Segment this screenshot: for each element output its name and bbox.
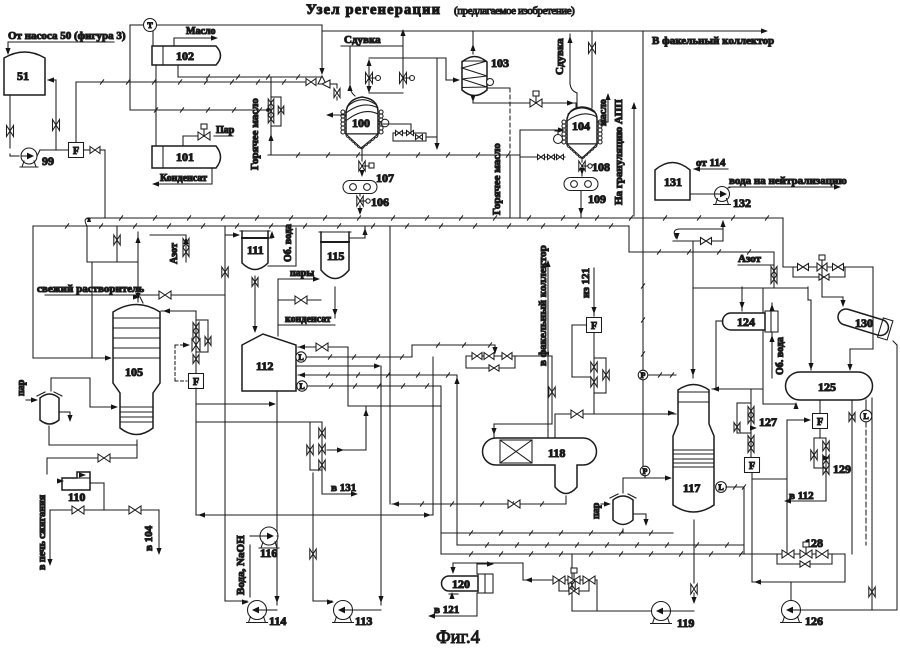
- wire pump132 up: [728, 187, 731, 188]
- label pary: [290, 268, 314, 279]
- wire x433: [432, 357, 434, 514]
- svg-text:Масло: Масло: [186, 26, 216, 37]
- flow meter F1: [69, 143, 84, 158]
- valve 106: [357, 195, 389, 209]
- wire 102 bottom out: [178, 65, 322, 79]
- vessel 112: [242, 334, 296, 391]
- wire F4 down: [751, 473, 753, 583]
- wire x369 riser: [366, 59, 371, 91]
- wire x572 riser: [569, 554, 597, 611]
- wire L1 left end down: [85, 217, 138, 262]
- wire x138 into col top: [135, 232, 140, 302]
- svg-text:113: 113: [355, 614, 372, 628]
- svg-text:112: 112: [256, 359, 273, 373]
- wire P line x643: [641, 252, 644, 466]
- steam pot 105: [37, 392, 62, 424]
- label ot 114: [693, 157, 728, 172]
- header L2 y226: [33, 224, 629, 228]
- pressure gauge P1: [638, 370, 648, 380]
- svg-text:в 131: в 131: [331, 482, 356, 494]
- wire 115 top vent: [349, 228, 368, 238]
- svg-text:Пар: Пар: [216, 125, 235, 136]
- wire x441 long: [440, 386, 442, 554]
- label voda na neytralizaciyu: [729, 175, 847, 190]
- wire F3 drop: [593, 393, 595, 414]
- vessel 115: [319, 232, 351, 279]
- hot oil riser valves: [267, 77, 284, 155]
- wire y58 header: [369, 57, 446, 59]
- svg-text:Т: Т: [147, 21, 153, 30]
- svg-text:L: L: [299, 382, 304, 391]
- valve on y82 line: [306, 79, 316, 86]
- wire 102-101 connector: [155, 65, 157, 146]
- level gauge L1-112: [296, 352, 306, 362]
- svg-text:вода на нейтрализацию: вода на нейтрализацию: [729, 175, 847, 187]
- traced P1 stub: [648, 373, 676, 377]
- wire y554 long: [441, 552, 762, 556]
- svg-text:F: F: [749, 461, 755, 472]
- gauge on 100: [378, 119, 389, 127]
- wire v131 drain: [322, 487, 358, 497]
- wire into reactor top: [330, 84, 340, 100]
- wire L2 corner: [629, 226, 774, 254]
- wire maslo arrow: [174, 35, 218, 46]
- heat exchanger 102: [152, 46, 221, 65]
- svg-text:Горячее масло: Горячее масло: [249, 98, 261, 170]
- wire sduvka 104: [567, 34, 577, 107]
- wire y510: [50, 506, 159, 514]
- wire x117 branch: [114, 226, 120, 262]
- wire y93: [366, 86, 403, 93]
- svg-text:Об. вода: Об. вода: [283, 224, 294, 262]
- label hot oil right: [491, 143, 503, 215]
- wire 111 feed: [225, 232, 240, 237]
- svg-text:L: L: [298, 353, 303, 362]
- vessel 125: [786, 372, 873, 400]
- title: [306, 2, 575, 18]
- wire flare drop x322: [319, 25, 324, 75]
- label Сдувка (100): [344, 34, 381, 46]
- svg-text:F: F: [817, 417, 823, 428]
- label v 131: [331, 482, 356, 494]
- valve azot: [150, 235, 189, 262]
- wire pot right stub: [59, 412, 73, 422]
- control valve steam: [183, 124, 210, 146]
- label maslo 104: [598, 99, 609, 126]
- svg-text:99: 99: [42, 154, 54, 168]
- svg-text:из 121: из 121: [580, 268, 592, 298]
- wire 103 feed: [446, 77, 460, 82]
- svg-text:Азот: Азот: [169, 243, 180, 264]
- wire fresh solvent line: [45, 291, 224, 303]
- wire x130 down: [129, 25, 131, 110]
- svg-text:Конденсат: Конденсат: [160, 173, 207, 184]
- label Конденсат: [160, 173, 207, 184]
- wire 112 y375: [298, 372, 457, 377]
- wire hot oil line y155: [268, 153, 520, 157]
- svg-text:Сдувка: Сдувка: [554, 38, 566, 75]
- wire pot top loop: [51, 378, 118, 410]
- valve 108: [579, 160, 610, 174]
- wire 104 vent valve: [589, 32, 596, 108]
- wire traced line y110: [130, 108, 268, 112]
- heat exchanger 101: [152, 146, 221, 168]
- wire y504: [392, 496, 566, 508]
- svg-text:130: 130: [855, 316, 873, 330]
- wire 104 bottom: [581, 157, 583, 162]
- svg-text:от 114: от 114: [696, 157, 726, 169]
- pump 113: [333, 601, 373, 629]
- svg-text:120: 120: [452, 577, 470, 591]
- wire pot bottom loop: [49, 426, 137, 458]
- wire into 118: [491, 356, 555, 437]
- wire maslo out: [598, 93, 611, 122]
- vessel 118: [483, 438, 597, 494]
- pump 126: [781, 601, 824, 629]
- wire L117 drop: [743, 487, 745, 554]
- wire 112 y366: [296, 363, 381, 368]
- loop top 117: [673, 220, 726, 245]
- valves under F3: [591, 333, 609, 394]
- strainer 109: [564, 178, 606, 207]
- svg-text:102: 102: [176, 49, 194, 63]
- label v 121: [434, 604, 459, 616]
- wire 125 bottom x852: [849, 400, 855, 554]
- header L1 y218: [87, 216, 783, 220]
- svg-text:пар: пар: [591, 502, 602, 519]
- wire x225 main: [222, 226, 228, 599]
- wire 124 bottom: [763, 303, 799, 409]
- wire x390 long: [389, 226, 391, 504]
- label v fakelnyi kollektor: [537, 245, 549, 366]
- wire pary: [278, 276, 320, 336]
- figure caption: [436, 628, 480, 648]
- wire dashed x510: [487, 88, 510, 152]
- wire pump114 right: [267, 609, 278, 611]
- svg-text:129: 129: [833, 462, 851, 476]
- wire T to 102: [152, 31, 154, 46]
- svg-text:105: 105: [125, 365, 143, 379]
- wire 117 top riser: [690, 242, 695, 378]
- wire kondensat: [278, 287, 338, 325]
- svg-text:конденсат: конденсат: [285, 314, 331, 325]
- pump 114: [247, 601, 287, 629]
- level gauge 125: [860, 400, 872, 545]
- valve on 51 bottom line: [7, 126, 14, 137]
- wire x716 from 124: [715, 321, 717, 389]
- svg-text:F: F: [591, 321, 597, 332]
- wire to 109: [579, 168, 584, 176]
- wire pump119 discharge: [597, 589, 651, 611]
- svg-text:Вода, NaOH: Вода, NaOH: [235, 535, 247, 595]
- svg-text:В факельный коллектор: В факельный коллектор: [652, 35, 774, 47]
- pump 132: [714, 187, 752, 211]
- wire to 130: [822, 267, 846, 307]
- angle valve at 322,80: [318, 76, 330, 88]
- wire flare riser x548: [545, 260, 550, 438]
- svg-text:124: 124: [737, 315, 755, 329]
- label na granulyaciyu APP: [613, 99, 625, 205]
- svg-text:111: 111: [247, 243, 264, 257]
- label voda NaOH: [235, 535, 250, 597]
- svg-text:119: 119: [677, 616, 694, 630]
- strainer 107: [343, 171, 394, 194]
- signal loop F2 dashed: [175, 345, 188, 381]
- vessel 51: [4, 52, 45, 95]
- ejector 110: [57, 472, 90, 504]
- wire x348 drop: [348, 347, 441, 406]
- svg-text:114: 114: [269, 614, 286, 628]
- vessel 120: [442, 574, 494, 593]
- gauge 103: [487, 79, 494, 86]
- wire 110 out: [90, 483, 104, 510]
- valve on 51 right line: [53, 120, 60, 131]
- label v pech szhiganiya: [37, 494, 48, 570]
- control valve 103 out: [530, 91, 542, 107]
- instrument T1: [144, 19, 157, 32]
- wire x897: [893, 341, 897, 609]
- wire par feed 117: [601, 501, 611, 506]
- wire 111 top vent: [261, 231, 275, 238]
- label from pump 50: [8, 30, 126, 42]
- svg-text:117: 117: [683, 481, 700, 495]
- svg-text:104: 104: [572, 119, 590, 133]
- label par 105: [16, 379, 27, 396]
- svg-text:пары: пары: [290, 268, 314, 279]
- wire F2 down: [195, 388, 197, 515]
- svg-text:в 121: в 121: [434, 604, 459, 616]
- svg-text:Р: Р: [643, 467, 648, 476]
- svg-text:108: 108: [592, 160, 610, 174]
- valve cluster feed 118: [412, 343, 552, 371]
- flow meter F3: [587, 318, 602, 333]
- wire y287: [693, 287, 808, 289]
- wire 104 coil feed: [520, 127, 565, 217]
- valve cluster 128: [762, 536, 845, 567]
- svg-text:F: F: [73, 146, 79, 157]
- svg-text:Узел регенерации: Узел регенерации: [306, 2, 441, 18]
- label v 104: [143, 525, 155, 551]
- wire to furnace: [47, 510, 52, 566]
- wire 111 bottom: [252, 276, 258, 333]
- wire 100 right to manifold: [379, 124, 411, 133]
- wire v112: [784, 477, 826, 504]
- wire x381 long: [378, 366, 383, 605]
- wire flare vertical x643: [642, 32, 644, 252]
- wire 120 bottom left stub: [449, 592, 458, 599]
- svg-text:Азот: Азот: [738, 253, 762, 265]
- flow meter F4: [745, 458, 760, 473]
- vessel 111: [240, 231, 270, 270]
- wire traced line y82: [76, 80, 306, 84]
- flow meter F2: [189, 374, 204, 389]
- valve set right of 105: [183, 311, 211, 374]
- svg-text:Сдувка: Сдувка: [344, 34, 381, 46]
- svg-text:103: 103: [491, 56, 509, 70]
- label Масло: [186, 26, 216, 37]
- svg-text:125: 125: [818, 380, 836, 394]
- wire x313 line: [310, 473, 334, 605]
- wire 51 right inlet: [47, 77, 56, 150]
- reactor 104: [562, 107, 602, 159]
- F3 bypass: [572, 325, 590, 377]
- pressure gauge P2: [640, 466, 650, 478]
- wire 124 feed: [739, 287, 744, 311]
- svg-text:131: 131: [664, 175, 682, 189]
- valve cluster 129: [811, 438, 851, 477]
- wire y545: [457, 543, 744, 547]
- valve after F1: [84, 147, 106, 154]
- wire y422: [196, 421, 322, 423]
- wire to 104 drain: [156, 510, 161, 555]
- wire 118 right top: [555, 410, 676, 438]
- wire x845 drop: [844, 554, 846, 582]
- steam pot 117: [610, 494, 636, 525]
- traced line L1-112: [306, 355, 412, 359]
- wire F1 drop: [75, 82, 77, 142]
- pump 99: [20, 148, 54, 168]
- wire pot117 right: [633, 514, 649, 526]
- wire down from F1 line: [104, 150, 106, 218]
- wire x33 branch: [32, 226, 34, 358]
- wire x437 drop: [434, 58, 439, 150]
- svg-text:Горячее масло: Горячее масло: [491, 143, 503, 215]
- wire feed into 51: [5, 42, 10, 55]
- wire 100 vent bend: [347, 46, 355, 96]
- pump 119: [651, 602, 695, 631]
- valve on x868: [869, 587, 875, 597]
- svg-text:От насоса 50 (фигура 3): От насоса 50 (фигура 3): [8, 30, 126, 42]
- wire 103 top to flare: [470, 32, 475, 54]
- drain valve set 112: [307, 422, 325, 487]
- flare header: [322, 28, 774, 47]
- svg-text:115: 115: [327, 249, 344, 263]
- wire 124 left: [716, 320, 723, 322]
- wire 120 out: [428, 593, 477, 619]
- column 103: [462, 56, 509, 96]
- wire 106 down: [357, 206, 362, 215]
- wire pot117 bottom: [622, 529, 624, 533]
- valve cluster 127: [734, 389, 777, 458]
- wire 125 right down: [871, 398, 873, 609]
- wire 117 bottom: [671, 520, 697, 611]
- column 105: [113, 305, 160, 435]
- wire x457 drop: [454, 375, 459, 545]
- wire x225 elbow: [225, 599, 249, 605]
- svg-text:(предлагаемое изобретение): (предлагаемое изобретение): [454, 5, 575, 17]
- wire 116 stubs: [250, 535, 278, 537]
- svg-text:101: 101: [176, 150, 194, 164]
- svg-text:51: 51: [17, 69, 29, 83]
- wire 112 y347: [298, 343, 348, 351]
- wire iz121: [591, 268, 596, 316]
- wire APP line: [631, 102, 636, 216]
- wire T line y25: [130, 24, 322, 26]
- svg-text:в печь сжигания: в печь сжигания: [37, 494, 48, 570]
- svg-text:132: 132: [733, 196, 751, 210]
- label Пар: [214, 125, 235, 136]
- label sduvka 104: [554, 38, 566, 75]
- label azot right: [738, 253, 774, 265]
- wire y533: [441, 531, 673, 535]
- control valve x403: [400, 73, 415, 84]
- wire y448 branch: [327, 406, 369, 453]
- vessel 130: [835, 305, 892, 340]
- vessel 117: [673, 385, 714, 513]
- svg-text:в 112: в 112: [789, 490, 814, 502]
- svg-text:свежий растворитель: свежий растворитель: [37, 283, 144, 295]
- svg-text:118: 118: [548, 446, 565, 460]
- wire 100 left stub: [326, 112, 345, 117]
- wire pot117 top: [623, 475, 672, 493]
- label ob voda 111: [283, 224, 294, 262]
- wire into 104 top: [567, 100, 576, 108]
- label hot oil left: [249, 98, 261, 170]
- wire 109 down: [578, 191, 583, 218]
- svg-text:Р: Р: [641, 371, 646, 380]
- wire 103 bottom: [470, 95, 576, 103]
- traced line L2-112: [307, 384, 441, 388]
- wire x403 riser: [400, 29, 405, 88]
- svg-text:106: 106: [371, 195, 389, 209]
- wire 131 to pump 132: [690, 193, 715, 195]
- svg-text:L: L: [863, 412, 868, 421]
- reactor 100: [341, 97, 383, 149]
- small pot at 104: [554, 131, 563, 144]
- svg-text:L: L: [718, 483, 723, 492]
- wire 111 right: [268, 228, 296, 266]
- svg-text:127: 127: [759, 415, 777, 429]
- wire pump126 suction: [801, 609, 898, 611]
- level gauge L2-112: [297, 381, 307, 391]
- wire par feed: [26, 397, 38, 402]
- wire 112 bottom x277: [274, 391, 279, 605]
- wire y515: [196, 512, 433, 517]
- wire x92: [91, 262, 93, 358]
- label iz 121: [580, 268, 592, 298]
- svg-text:Фиг.4: Фиг.4: [436, 628, 480, 648]
- manifold bypass 100: [393, 130, 437, 141]
- wire 51 bottom to pump 99: [10, 95, 19, 156]
- wire 125 feed: [808, 287, 814, 370]
- wire pump126 discharge: [790, 582, 792, 600]
- svg-text:100: 100: [352, 116, 370, 130]
- label ob voda 124: [775, 337, 786, 375]
- wire condensate: [152, 168, 212, 187]
- label par 117: [591, 502, 602, 519]
- wire y582: [752, 579, 845, 584]
- wire y300 valve: [278, 296, 321, 304]
- wire y404: [196, 401, 276, 406]
- level gauge 117: [716, 482, 746, 493]
- svg-text:Об. вода: Об. вода: [775, 337, 786, 375]
- wire y458: [47, 454, 137, 474]
- valve cluster 120 feed: [523, 563, 597, 595]
- wire pump99 to F: [37, 150, 68, 156]
- svg-text:в 104: в 104: [143, 525, 155, 551]
- svg-text:109: 109: [588, 192, 606, 206]
- svg-text:107: 107: [376, 171, 394, 185]
- vessel 124: [723, 311, 779, 332]
- svg-text:110: 110: [68, 490, 85, 504]
- wire 107-106: [359, 194, 361, 197]
- svg-text:пар: пар: [16, 379, 27, 396]
- svg-text:116: 116: [260, 546, 277, 560]
- wire sduvka 100: [341, 45, 403, 47]
- wire hot oil x510: [509, 155, 511, 217]
- control valve x369: [366, 73, 381, 84]
- label fresh solvent: [37, 283, 144, 295]
